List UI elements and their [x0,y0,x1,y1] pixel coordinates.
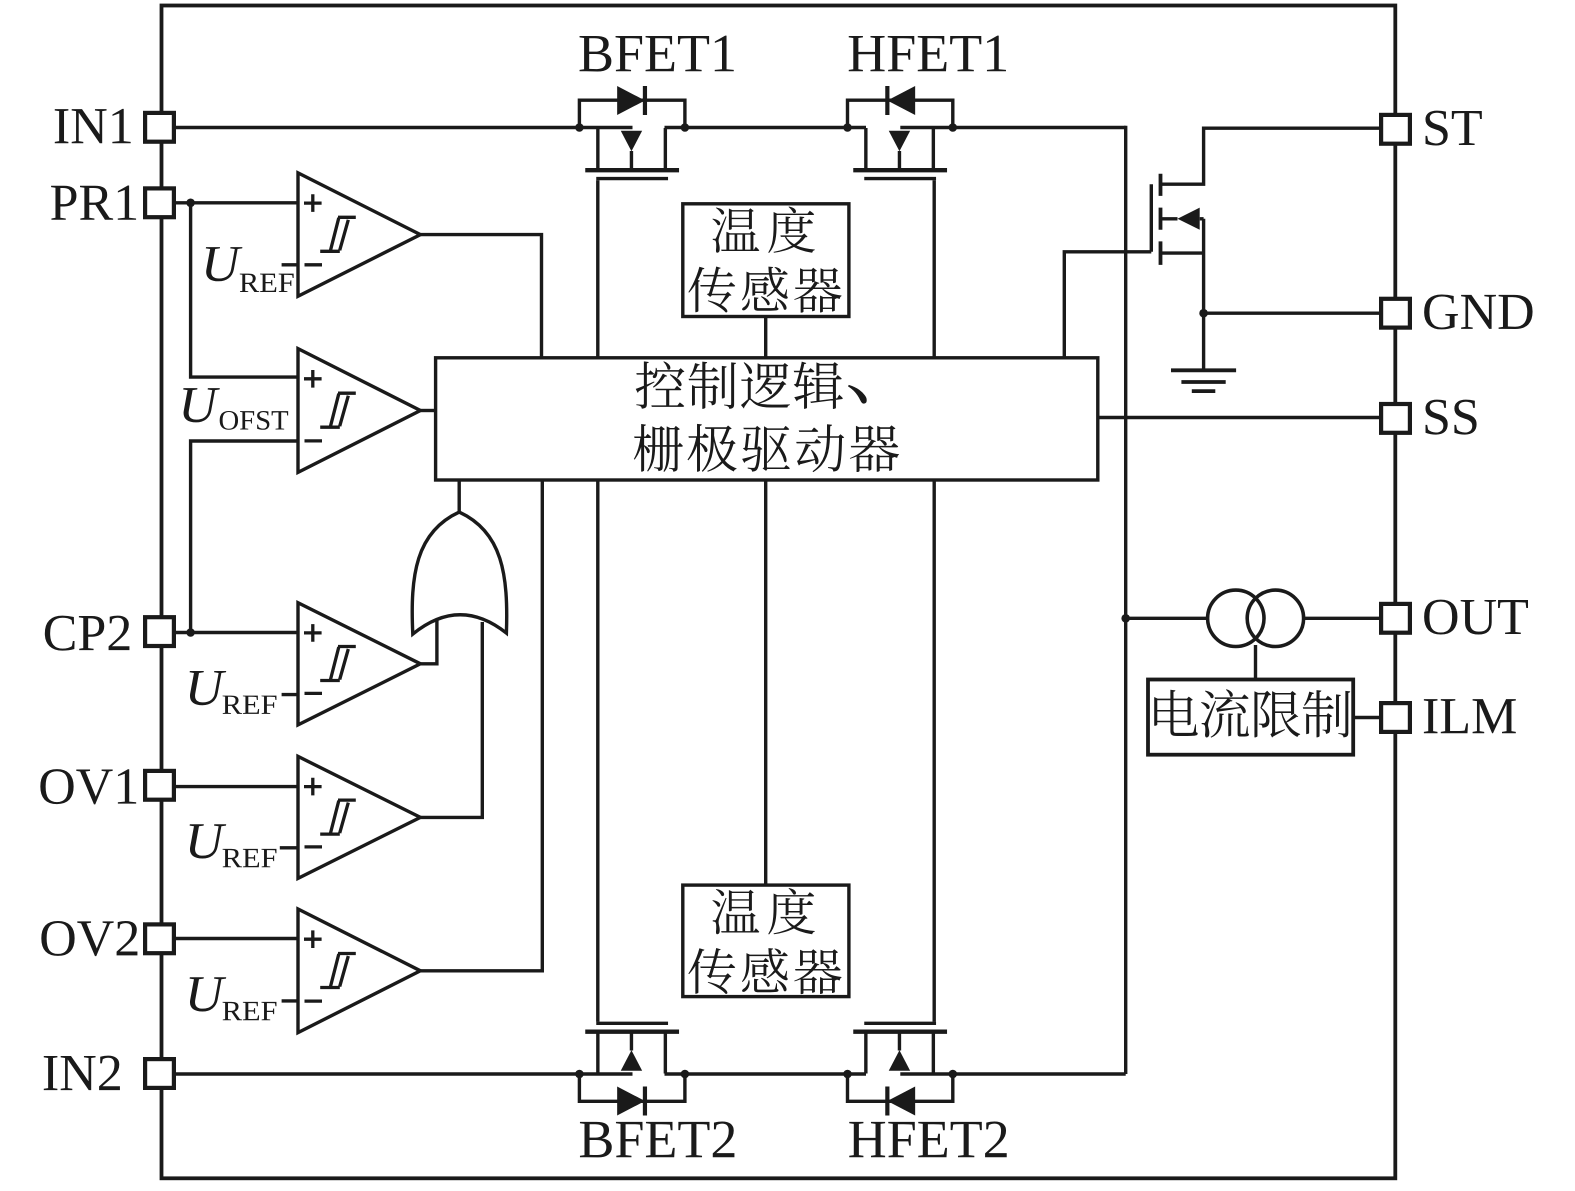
wire Q1 gate to control logic [1064,252,1151,358]
pin label IN2 [44,1056,120,1090]
transistor HFET1 (with body diode) [843,86,957,179]
op-amp comparator A3 (CP2) [298,603,420,725]
pin square ST [1381,115,1410,144]
block temperature sensor 1 [683,204,849,317]
pin square IN1 [145,113,174,142]
pin label PR1 [51,185,136,219]
op-amp comparator A5 (OV2) [298,909,420,1033]
wire BFET1 gate to control logic [596,180,599,358]
wire stub U_REF to A1 - [282,263,298,266]
label BFET2 [580,1121,734,1157]
label temp sensor1 line1 [712,206,814,253]
wire CP2 to comparator A3 + [176,631,298,634]
pin label OV1 [40,769,136,804]
pin label SS [1425,400,1476,435]
label HFET1 [849,36,1006,72]
wire OV2 to comparator A5 + [176,937,298,940]
transistor Q1 (discharge NMOS) [1151,174,1203,265]
op-amp comparator A4 (OV1) [298,756,420,878]
wire OR gate output to control logic [458,480,461,512]
wire PR1 to comparator A2 + [191,203,298,377]
wire A3 output to OR gate [420,619,437,664]
wire IN1 rail to BFET1/HFET1 [176,126,1126,129]
label U_REF (A3) [190,671,277,714]
block temperature sensor 2 [683,885,849,997]
wire BFET2 gate to control logic [596,480,599,1022]
wire ST to Q1 drain [1161,128,1380,184]
transistor BFET2 (with body diode) [575,1023,689,1115]
label BFET1 [580,36,734,72]
label HFET2 [849,1121,1006,1157]
wire A5 output to control logic [420,480,542,971]
pin square GND [1381,299,1410,328]
label temp sensor2 line2 [688,948,841,994]
node GND junction [1199,309,1208,318]
wire Q1 source to GND pin [1204,219,1379,369]
label control logic line2 [634,424,899,472]
pin label GND [1424,294,1532,329]
transistor HFET2 (with body diode) [843,1023,957,1115]
pin square CP2 [145,617,174,646]
node PR1 junction [186,199,195,208]
pin square OV2 [145,924,174,953]
pin square SS [1381,404,1410,433]
node OUT junction [1121,614,1130,623]
pin label OUT [1424,600,1528,635]
ground symbol [1171,370,1236,391]
pin square ILM [1381,703,1410,732]
OR gate G1 [412,512,507,634]
wire A1 output to control logic [420,235,541,358]
pin label CP2 [45,616,130,651]
wire control logic to SS pin [1098,416,1379,419]
pin square PR1 [145,188,174,217]
wire A2 output to control logic [420,409,435,412]
wire HFET1 gate to control logic [933,180,936,358]
pin square OV1 [145,771,174,800]
label temp sensor1 line2 [688,266,841,312]
block control logic / gate driver [436,358,1098,480]
current sensor (linked circles) [1208,590,1304,646]
wire OV1 to comparator A4 + [176,785,298,788]
pin label ST [1425,111,1481,146]
op-amp comparator A1 (PR1) [298,173,420,296]
wire stub U_REF to A3 - [282,693,298,696]
wire current sensor to OUT pin [1304,617,1379,620]
wire current sensor to current limit block [1254,645,1257,680]
pin label ILM [1424,699,1516,733]
wire current limit to ILM pin [1353,716,1379,719]
label U_OFST (A2) [183,388,288,430]
pin square IN2 [145,1059,174,1088]
block current limit [1148,680,1353,755]
label U_REF (A4) [190,824,277,867]
wire HFET2 gate to control logic [933,480,936,1022]
wire common output node vertical [1124,126,1127,1074]
label temp sensor2 line1 [712,888,814,935]
wire A4 output to OR gate [420,622,482,817]
node CP2 junction [186,628,195,637]
wire comparator A2 - to CP2 [191,441,298,633]
wire control logic to temp sensor 2 [764,480,767,885]
wire IN2 rail to BFET2/HFET2 [176,1072,1126,1075]
wire PR1 to comparator A1 + [176,201,298,204]
wire stub U_REF to A5 - [282,999,298,1002]
wire temp sensor1 to control logic [764,317,767,358]
pin label OV2 [41,921,137,956]
op-amp comparator A2 (offset) [298,349,420,473]
wire stub U_REF to A4 - [280,846,298,849]
label current limit [1154,689,1350,737]
pin label IN1 [55,109,131,143]
label U_REF (A5) [190,977,277,1020]
IC boundary box [162,6,1396,1179]
label U_REF (A1) [206,247,294,292]
label control logic line1 [636,361,867,409]
wire output node to current sensor [1126,617,1208,620]
transistor BFET1 (with body diode) [575,86,689,179]
pin square OUT [1381,604,1410,633]
